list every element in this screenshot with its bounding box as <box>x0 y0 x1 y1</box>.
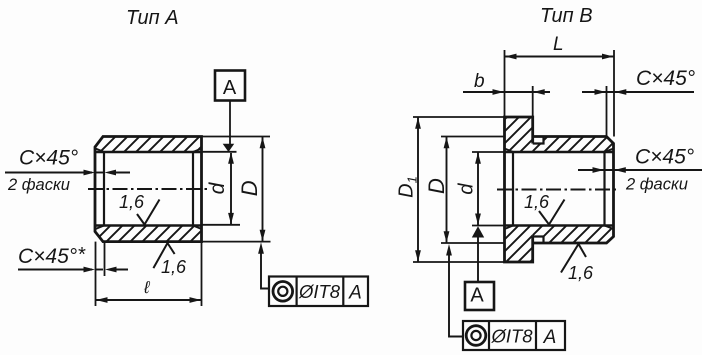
hatch top wall A <box>95 137 202 153</box>
body outline B <box>533 137 614 244</box>
bore bottom edge B <box>505 224 614 227</box>
svg-text:D: D <box>424 178 449 194</box>
svg-text:d: d <box>206 181 229 194</box>
datum A symbol (Type B) <box>465 226 494 310</box>
dimension l A <box>96 242 202 306</box>
roughness 1,6 bore B <box>524 192 565 225</box>
svg-text:A: A <box>543 327 557 348</box>
svg-text:1,6: 1,6 <box>119 192 145 212</box>
bore top edge A <box>96 151 202 154</box>
dimension D A <box>237 137 266 242</box>
hatch bottom wall A <box>95 226 202 242</box>
relief notch top B <box>533 137 544 144</box>
bore bottom edge A <box>96 224 202 227</box>
hatch flange top B <box>505 117 533 152</box>
hatch body top wall B <box>533 137 614 153</box>
centerline B <box>497 189 618 191</box>
dimension L B <box>505 34 615 137</box>
label 2 фаски A <box>7 176 70 194</box>
tolerance frame B <box>463 321 565 350</box>
svg-text:D: D <box>237 180 262 196</box>
svg-text:1,6: 1,6 <box>568 263 594 283</box>
svg-text:ℓ: ℓ <box>143 278 150 297</box>
svg-text:C×45°: C×45° <box>636 67 695 90</box>
svg-text:C×45°: C×45° <box>635 146 694 169</box>
bore chamfer diagonals A <box>96 149 202 230</box>
bore chamfer diagonals B <box>505 149 614 230</box>
dimension d B <box>456 152 481 225</box>
bore top edge B <box>505 151 614 154</box>
dimension D B <box>424 137 449 243</box>
tolerance frame A <box>269 277 368 307</box>
label C×45° right middle B <box>635 146 694 169</box>
label C×45°* lower left A <box>18 244 86 268</box>
roughness 1,6 outer B <box>561 244 594 283</box>
svg-text:A: A <box>348 283 362 304</box>
bore chamfer dimension right B <box>578 167 702 173</box>
label C×45° upper left A <box>19 147 78 170</box>
chamfer transition line left A <box>103 152 105 226</box>
hatch flange bottom B <box>505 226 533 263</box>
extension lines left B <box>413 117 505 262</box>
svg-text:d: d <box>456 183 478 195</box>
title Тип В <box>540 5 593 27</box>
datum A symbol (Type A) <box>215 71 245 153</box>
roughness 1,6 outer A <box>153 243 187 277</box>
label 2 фаски B <box>625 176 688 194</box>
svg-text:A: A <box>470 285 484 307</box>
chamfer dimension upper left A <box>5 170 130 176</box>
tolerance frame leader A <box>258 242 269 288</box>
svg-text:2 фаски: 2 фаски <box>625 176 688 194</box>
chamfer transition line left B <box>512 152 514 226</box>
svg-text:2 фаски: 2 фаски <box>7 176 70 194</box>
svg-text:1,6: 1,6 <box>161 257 187 277</box>
centerline A <box>88 188 209 190</box>
body outline A <box>95 137 202 242</box>
dimension D1 B <box>396 117 421 261</box>
chamfer dimension lower left A <box>18 242 128 276</box>
chamfer transition line right A <box>192 152 194 226</box>
svg-text:Тип В: Тип В <box>540 5 593 27</box>
svg-text:Тип А: Тип А <box>126 7 179 29</box>
roughness 1,6 bore A <box>119 192 160 225</box>
svg-text:ØIT8: ØIT8 <box>298 281 341 302</box>
svg-text:A: A <box>223 77 237 99</box>
svg-text:b: b <box>474 71 485 92</box>
dimension d A <box>206 152 234 224</box>
dimension b B <box>463 71 550 117</box>
chamfer dimension top right B <box>582 67 695 137</box>
hatch body bottom wall B <box>533 226 614 244</box>
svg-text:C×45°*: C×45°* <box>18 244 86 268</box>
chamfer transition line right B <box>603 152 605 226</box>
svg-text:1,6: 1,6 <box>524 192 550 212</box>
svg-text:ØIT8: ØIT8 <box>490 326 533 347</box>
svg-text:L: L <box>553 34 564 55</box>
title Тип А <box>126 7 179 29</box>
flange outline B <box>505 117 533 262</box>
svg-text:C×45°: C×45° <box>19 147 78 170</box>
extension lines right A <box>202 137 271 242</box>
relief notch bottom B <box>533 237 544 244</box>
tolerance frame leader B <box>446 244 463 337</box>
